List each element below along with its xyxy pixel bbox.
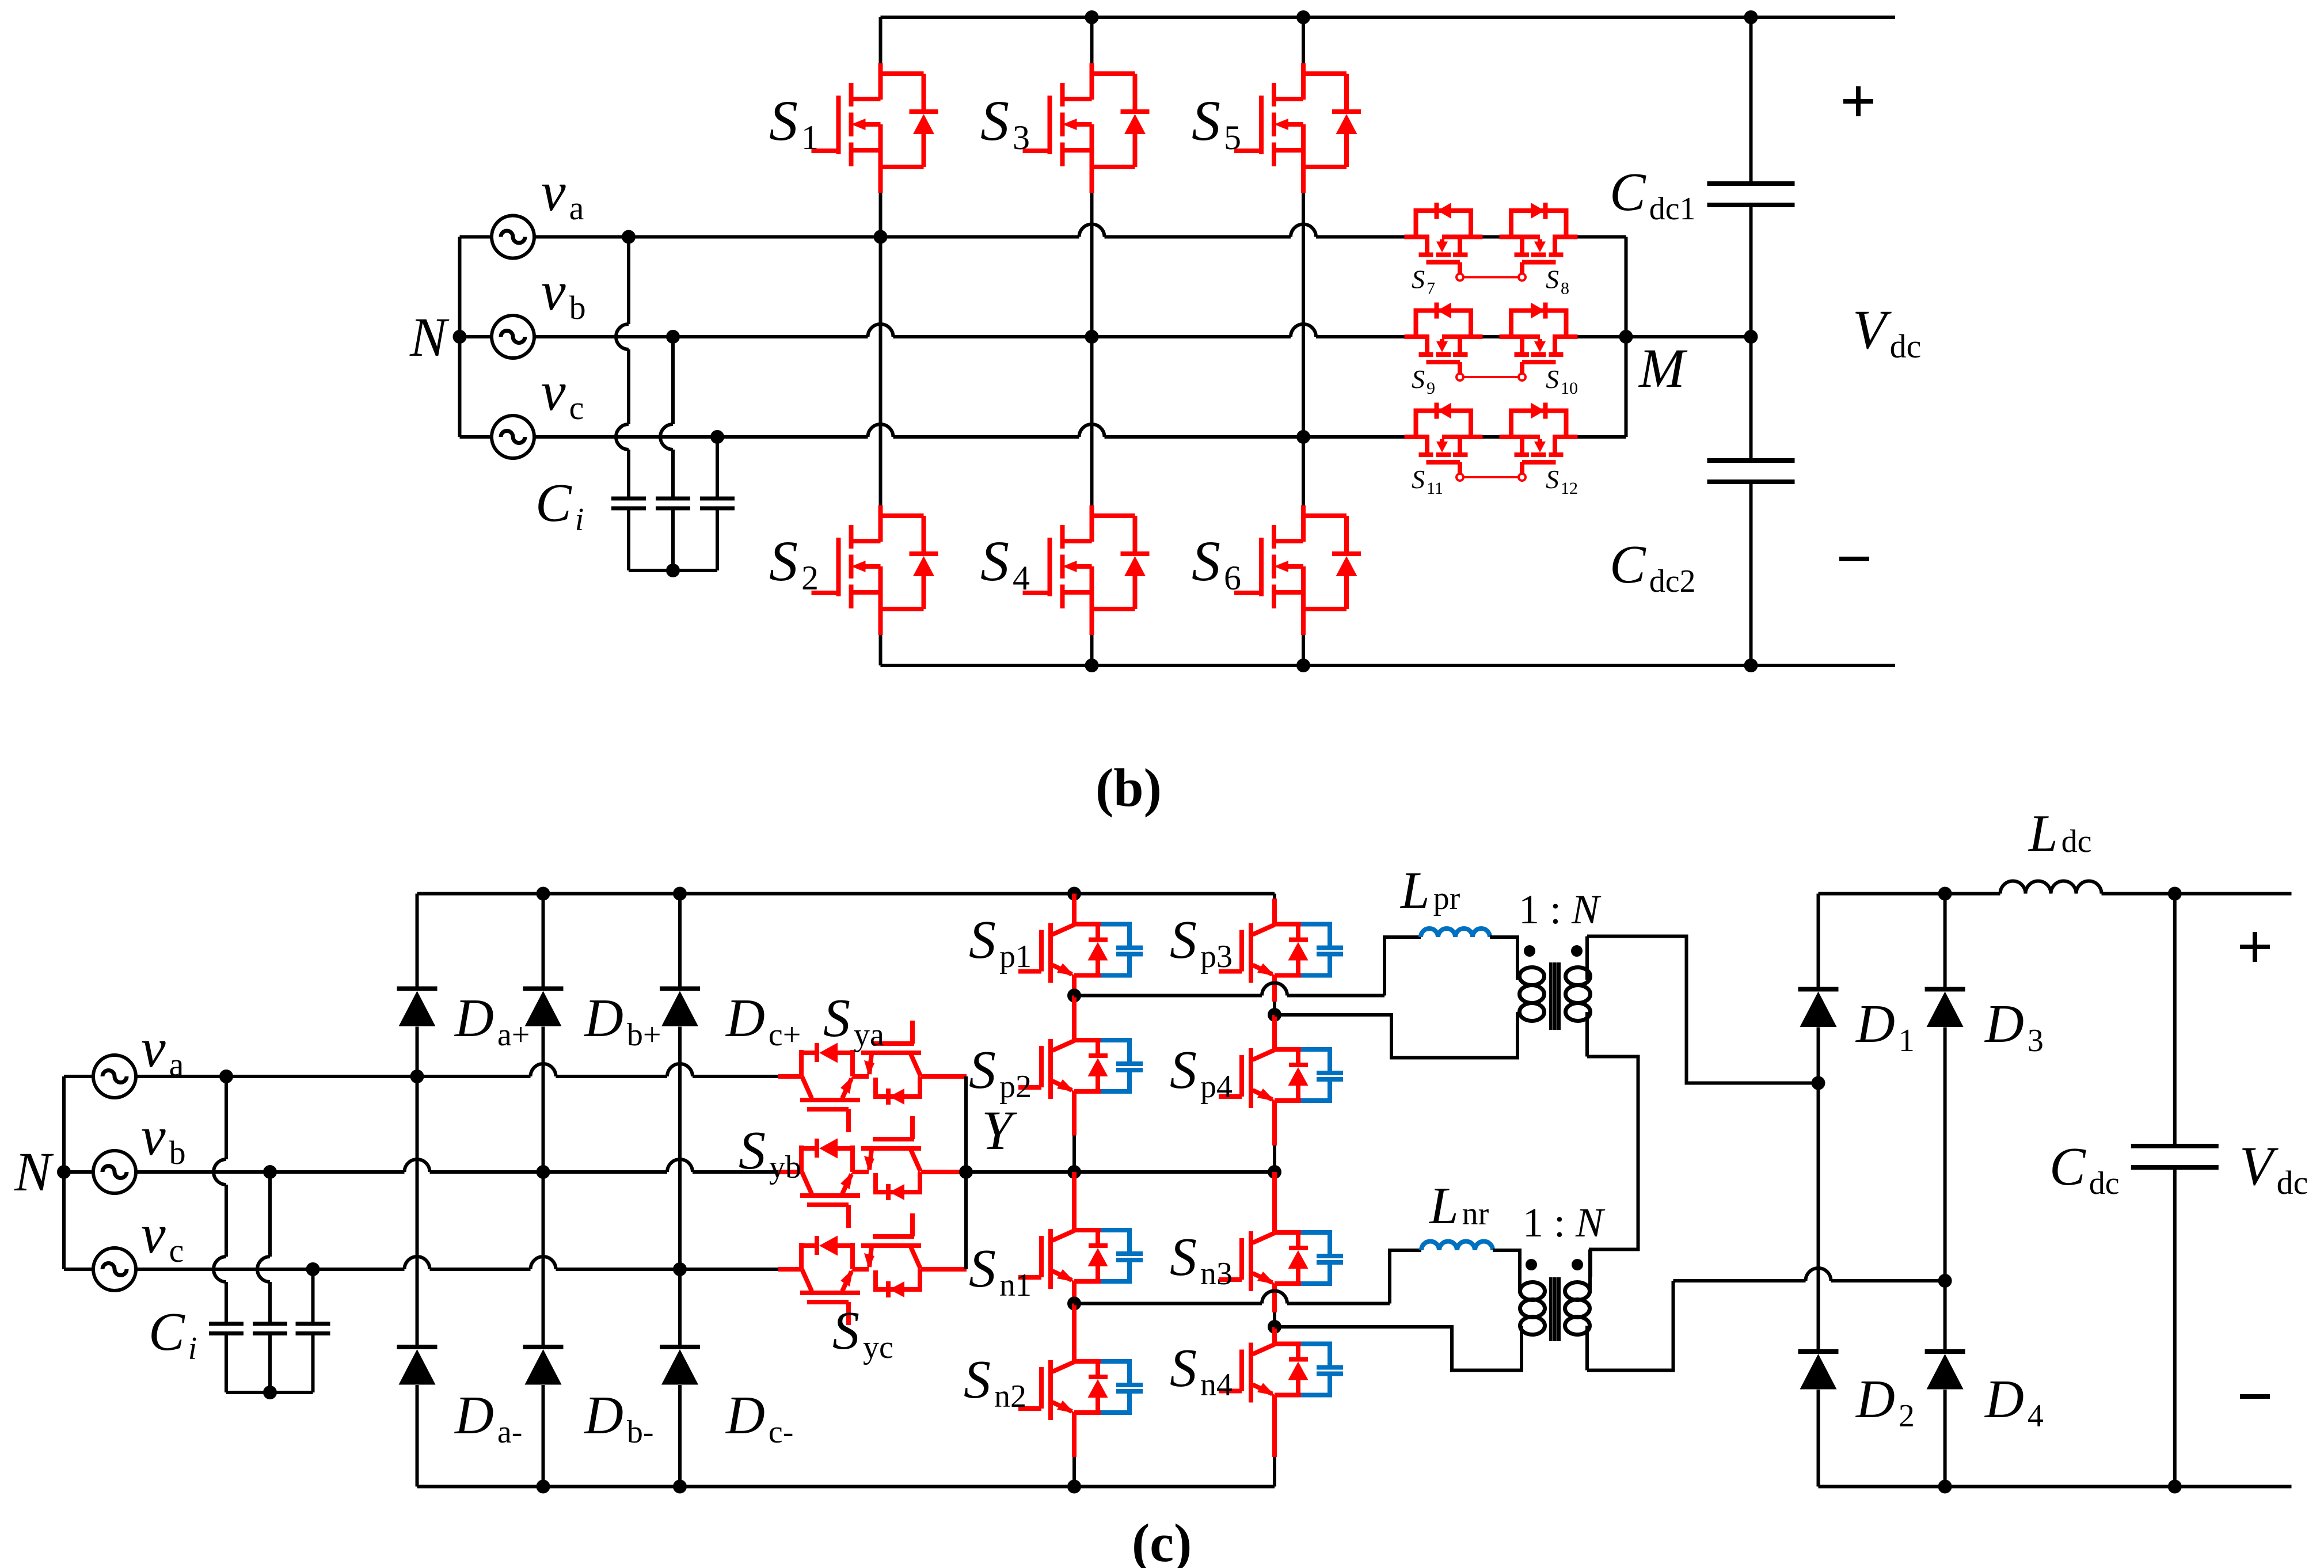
capacitor Cdc2 [1707, 460, 1795, 482]
node: leg3 bottom junction [1296, 659, 1310, 672]
node: phase b / Ci tap (c) [263, 1165, 277, 1179]
svg-text:Ci: Ci [535, 473, 584, 538]
snubber capacitor Sp3 [1301, 924, 1343, 976]
crossover: Ci-a over phase c (c) [214, 1257, 226, 1282]
node: Y / Sp4-Sn3 [1268, 1165, 1281, 1179]
svg-text:Db-: Db- [583, 1386, 654, 1450]
node M [1744, 330, 1758, 344]
node: top bus / Cdc [2168, 887, 2182, 901]
bidirectional switch Syc [778, 1213, 967, 1325]
svg-text:S3: S3 [980, 89, 1030, 157]
wire: Ci common bar (c) [226, 1391, 313, 1394]
source va (b) [492, 216, 534, 258]
node: phase b / leg b [537, 1165, 550, 1179]
crossover: Ci-a over phase c [616, 424, 629, 450]
snubber capacitor Sn1 [1101, 1230, 1143, 1281]
wire: rectifier top bus [1819, 892, 2000, 896]
wire: rectifier leg 2 [1943, 894, 1947, 989]
wire: Ci branch b (c) [268, 1172, 272, 1257]
node: phase a / Ci tap (c) [219, 1070, 233, 1083]
snubber capacitor Sn2 [1101, 1361, 1143, 1413]
svg-text:1 : N: 1 : N [1523, 1200, 1606, 1246]
wire: Ci branch a (b) [627, 237, 630, 325]
crossover: phase b over leg1 [868, 324, 893, 337]
crossover: phase b over leg3 [1291, 324, 1316, 337]
diode Da+ [397, 989, 438, 1027]
svg-text:Dc+: Dc+ [725, 988, 801, 1053]
bidirectional switch Syb [778, 1116, 967, 1228]
snubber capacitor Sp2 [1101, 1040, 1143, 1091]
wire: source stub vb (b) [460, 335, 492, 338]
wire: negative dc bus (b) [881, 664, 1896, 667]
node: dc-link bottom junction [1744, 659, 1758, 672]
crossover: phase a over leg2 [1079, 224, 1105, 237]
node: rectifier input 2 [1938, 1274, 1952, 1288]
svg-text:Cdc1: Cdc1 [1610, 162, 1696, 227]
node: leg2 bottom junction [1085, 659, 1099, 672]
svg-text:S11: S11 [1412, 465, 1443, 498]
wire: Sp2 collector [1072, 996, 1077, 1041]
wire: dc-link vertical (b) [1749, 17, 1753, 184]
wire: Sp3 emitter [1272, 976, 1277, 1002]
capacitor Ci b (b) [656, 498, 690, 508]
wire: Sp4 emitter [1272, 1101, 1277, 1145]
svg-text:D2: D2 [1855, 1369, 1915, 1434]
node: leg3 top junction [1296, 10, 1310, 24]
svg-text:(c): (c) [1132, 1513, 1192, 1568]
node: top bus / Sp1 [1067, 887, 1081, 901]
label plus (b) [1843, 99, 1873, 104]
svg-text:Dc-: Dc- [725, 1386, 793, 1450]
svg-text:S9: S9 [1412, 364, 1435, 398]
wire: Lnr to transformer2 [1493, 1250, 1520, 1293]
wire: bridge leg c (c) [678, 894, 682, 989]
node: top bus / D3 [1938, 887, 1952, 901]
transistor S1 (MOSFET) [812, 63, 938, 193]
wire: Y line to bridge [966, 1170, 1275, 1174]
polarity dot T2 primary [1526, 1259, 1537, 1270]
node N (c) [57, 1165, 71, 1179]
svg-text:vb: vb [141, 1105, 186, 1171]
wire: leg2 upper (b) [1090, 17, 1094, 63]
diode Db- [523, 1347, 564, 1385]
inductor Lpr [1421, 928, 1490, 937]
node: bottom bus / Sn2 [1067, 1480, 1081, 1494]
wire: Sn3 collector [1272, 1172, 1277, 1232]
transformer T2 (1:N) [1520, 1282, 1545, 1300]
svg-text:Db+: Db+ [583, 988, 661, 1053]
svg-text:S8: S8 [1546, 265, 1569, 298]
wire: Sn1 emitter [1072, 1281, 1077, 1298]
node C: Sn1/Sn2 junction [1067, 1297, 1081, 1311]
polarity dot T2 secondary [1572, 1259, 1583, 1270]
wire: source stub vc (b) [460, 435, 492, 439]
crossover: C link over right leg [1262, 1291, 1287, 1304]
wire: source stub va (b) [460, 235, 492, 239]
svg-text:va: va [141, 1017, 184, 1083]
svg-text:Sn4: Sn4 [1170, 1338, 1233, 1403]
node: rectifier input 1 [1812, 1076, 1825, 1090]
wire: Ci branch c (b) [716, 437, 719, 498]
wire: T1 secondary top to rectifier [1587, 937, 1819, 1083]
source vc (b) [492, 416, 534, 458]
wire: Ci branch a (c) [225, 1076, 228, 1159]
wire: right leg collector Sp3 [1273, 894, 1276, 899]
svg-text:Y: Y [982, 1099, 1017, 1161]
node: phase c / leg3 [1296, 430, 1310, 444]
svg-text:S10: S10 [1546, 364, 1578, 398]
node: Ci star point (b) [666, 564, 680, 577]
wire: Ci common bar (b) [629, 569, 717, 572]
transistor S5 (MOSFET) [1234, 63, 1361, 193]
wire: Sn2 collector [1072, 1304, 1077, 1362]
svg-text:vb: vb [541, 260, 586, 326]
svg-text:N: N [409, 306, 450, 368]
svg-text:Syc: Syc [832, 1301, 893, 1365]
crossover: phase c over leg2 [1079, 424, 1105, 437]
wire: phase b line (c) [136, 1170, 405, 1174]
transistor Sn1 (IGBT) [1018, 1229, 1108, 1289]
svg-text:Cdc: Cdc [2049, 1137, 2120, 1201]
svg-text:S12: S12 [1546, 465, 1578, 498]
wire: neutral bus (c) [62, 1076, 66, 1269]
node: bottom bus / Cdc [2168, 1480, 2182, 1494]
svg-text:1 : N: 1 : N [1519, 886, 1602, 933]
wire: T2 secondary bottom to rectifier [1587, 1281, 1673, 1371]
node: phase c / leg c [673, 1262, 687, 1276]
capacitor Ci a (b) [611, 498, 646, 508]
crossover: Ci-a over phase b [616, 324, 629, 349]
wire: left leg collector Sp1 [1072, 894, 1077, 924]
wire: Sn1 collector [1072, 1172, 1077, 1230]
svg-text:S1: S1 [769, 89, 819, 157]
capacitor Cdc (c) [2131, 1146, 2219, 1167]
node: phase c / Ci tap [710, 430, 724, 444]
diode D1 [1798, 989, 1839, 1027]
wire: node D link [1275, 1326, 1522, 1371]
wire: rectifier bottom bus [1819, 1485, 2292, 1489]
bidirectional switch cell S11/S12 [1405, 403, 1578, 481]
transistor S6 (MOSFET) [1234, 505, 1361, 635]
crossover: phase a over leg c [667, 1064, 693, 1076]
wire: phase c line (c) [136, 1268, 405, 1271]
wire: phase b to M (b) [1578, 335, 1751, 338]
svg-text:D3: D3 [1984, 994, 2044, 1059]
wire: source stub va (c) [64, 1075, 93, 1078]
transformer T2 secondary [1588, 1250, 1592, 1294]
svg-text:Sya: Sya [823, 988, 884, 1053]
node: phase a / Ci tap [622, 230, 636, 244]
wire: rectifier leg 1 [1817, 894, 1820, 989]
wire: M collector vertical (b) [1625, 237, 1628, 437]
svg-text:Sn1: Sn1 [969, 1239, 1032, 1303]
diode Da- [397, 1347, 438, 1385]
wire: bridge leg b (c) [542, 894, 545, 989]
wire: positive dc bus (b) [881, 16, 1896, 19]
node: phase c / Ci tap (c) [306, 1262, 320, 1276]
crossover: phase c over leg b [531, 1257, 556, 1269]
node D: Sn3/Sn4 junction [1268, 1320, 1281, 1334]
diode Dc- [660, 1347, 700, 1385]
polarity dot T1 primary [1524, 945, 1535, 957]
source vb (c) [93, 1151, 136, 1193]
crossover: Ci-b over phase c [660, 424, 673, 450]
svg-text:va: va [541, 161, 584, 227]
transistor S2 (MOSFET) [812, 505, 938, 635]
node: phase b / leg2 [1085, 330, 1099, 344]
svg-text:vc: vc [541, 360, 584, 427]
node: phase a / leg1 [874, 230, 888, 244]
node: bottom bus / leg c [673, 1480, 687, 1494]
node Y [959, 1165, 973, 1179]
svg-text:vc: vc [141, 1203, 184, 1269]
wire: Y vertical [964, 1076, 968, 1269]
transistor Sp2 (IGBT) [1018, 1039, 1108, 1099]
svg-text:Sn3: Sn3 [1170, 1227, 1233, 1292]
svg-text:Ci: Ci [149, 1302, 197, 1367]
label minus (b) [1839, 557, 1869, 561]
node: leg2 top junction [1085, 10, 1099, 24]
wire: bottom bus (c) [417, 1485, 1275, 1489]
wire: phase c line (b) [534, 435, 868, 439]
transistor Sn2 (IGBT) [1018, 1360, 1108, 1420]
wire: Sp2 emitter [1072, 1091, 1077, 1136]
capacitor Cdc1 [1707, 184, 1795, 205]
wire: Ci branch c (c) [311, 1269, 315, 1324]
crossover: phase a over leg b [531, 1064, 556, 1076]
svg-text:Da+: Da+ [454, 988, 530, 1053]
wire: leg1 upper (b) [879, 17, 883, 63]
svg-text:Sn2: Sn2 [964, 1350, 1026, 1414]
transistor Sp3 (IGBT) [1219, 923, 1309, 983]
svg-text:S7: S7 [1412, 265, 1435, 298]
svg-text:Sp1: Sp1 [969, 910, 1032, 975]
wire: source stub vc (c) [64, 1268, 93, 1271]
svg-text:Cdc2: Cdc2 [1610, 535, 1696, 599]
wire: phase a line (c) [136, 1075, 531, 1078]
snubber capacitor Sp1 [1101, 924, 1143, 976]
crossover: phase c over leg a [405, 1257, 430, 1269]
wire: leg3 upper (b) [1302, 17, 1305, 63]
wire: node A link [1074, 994, 1262, 998]
svg-text:S2: S2 [769, 529, 819, 597]
crossover: phase a over leg3 [1291, 224, 1316, 237]
source vc (c) [93, 1248, 136, 1291]
node B: Sp3/Sp4 junction [1268, 1008, 1281, 1022]
node: bottom bus / leg b [537, 1480, 550, 1494]
diode D3 [1925, 989, 1965, 1027]
node: top bus / leg c [673, 887, 687, 901]
crossover: phase c over leg1 [868, 424, 893, 437]
label plus (c) [2240, 945, 2270, 949]
capacitor Ci b (c) [253, 1324, 287, 1334]
transistor Sn4 (IGBT) [1219, 1343, 1309, 1403]
node: dc-link top junction [1744, 10, 1758, 24]
snubber capacitor Sn3 [1301, 1232, 1343, 1284]
polarity dot T1 secondary [1571, 945, 1583, 957]
crossover: Ci-b over phase c (c) [257, 1257, 270, 1282]
source vb (b) [492, 315, 534, 358]
node A: Sp1/Sp2 junction [1067, 989, 1081, 1003]
wire: top bus (c) [417, 892, 1275, 896]
capacitor Ci a (c) [209, 1324, 244, 1334]
svg-text:Sp3: Sp3 [1170, 910, 1233, 975]
inductor Ldc [2000, 881, 2102, 894]
wire: node C link [1074, 1302, 1262, 1306]
transistor Sp4 (IGBT) [1219, 1048, 1309, 1108]
bidirectional switch cell S9/S10 [1405, 303, 1578, 381]
crossover: phase b over leg c [667, 1159, 693, 1172]
svg-text:N: N [14, 1141, 54, 1202]
svg-text:D1: D1 [1855, 994, 1915, 1059]
svg-text:Vdc: Vdc [1853, 299, 1921, 365]
svg-text:Lnr: Lnr [1428, 1177, 1489, 1235]
wire: phase a line (b) [534, 235, 1079, 239]
bidirectional switch Sya [778, 1021, 967, 1132]
wire: phase a to M collector (b) [1578, 235, 1626, 239]
svg-text:Vdc: Vdc [2239, 1135, 2308, 1201]
svg-text:Lpr: Lpr [1399, 861, 1460, 919]
wire: phase b line (b) [534, 335, 868, 338]
diode D2 [1798, 1352, 1839, 1390]
wire: bridge leg a (c) [416, 894, 419, 989]
svg-text:Sp4: Sp4 [1170, 1040, 1233, 1105]
svg-text:Da-: Da- [454, 1386, 522, 1450]
wire: phase c to M collector (b) [1578, 435, 1626, 439]
svg-text:S6: S6 [1192, 529, 1241, 597]
diode Db+ [523, 989, 564, 1027]
inductor Lnr [1421, 1242, 1493, 1251]
snubber capacitor Sp4 [1301, 1049, 1343, 1101]
crossover: Ci-a over phase b (c) [214, 1159, 226, 1185]
capacitor Ci c (b) [700, 498, 735, 508]
wire: Sp1 emitter [1072, 976, 1077, 992]
snubber capacitor Sn4 [1301, 1344, 1343, 1395]
svg-text:M: M [1638, 337, 1688, 399]
node: Y / Sp2-Sn1 [1067, 1165, 1081, 1179]
wire: Sn4 emitter [1272, 1395, 1277, 1457]
node: M collector junction [1619, 330, 1633, 344]
svg-text:(b): (b) [1096, 758, 1162, 818]
crossover: phase b over leg a [405, 1159, 430, 1172]
svg-text:S4: S4 [980, 529, 1030, 597]
transistor S3 (MOSFET) [1023, 63, 1150, 193]
transistor S4 (MOSFET) [1023, 505, 1150, 635]
node N (b) [453, 330, 467, 344]
capacitor Ci c (c) [296, 1324, 330, 1334]
wire: source stub vb (c) [64, 1170, 93, 1174]
wire: Sn4 collector [1272, 1327, 1277, 1344]
crossover: input2 over rectifier leg1 [1806, 1268, 1831, 1281]
wire: Lpr to transformer1 [1490, 937, 1517, 980]
svg-text:S5: S5 [1192, 89, 1241, 157]
svg-text:Sp2: Sp2 [969, 1040, 1032, 1105]
transformer T1 secondary [1585, 937, 1589, 980]
transformer T1 (1:N) [1520, 968, 1545, 985]
bidirectional switch cell S7/S8 [1405, 203, 1578, 281]
wire: node B link [1275, 1012, 1517, 1058]
crossover: A link over right leg [1262, 983, 1287, 996]
node: phase a / leg a [410, 1070, 424, 1083]
node: phase b / Ci tap [666, 330, 680, 344]
label minus (c) [2240, 1394, 2270, 1399]
svg-text:Ldc: Ldc [2028, 804, 2091, 862]
wire: neutral bus (b) [458, 237, 462, 437]
wire: Sn2 emitter [1072, 1413, 1077, 1457]
node: top bus / leg b [537, 887, 550, 901]
source va (c) [93, 1055, 136, 1098]
wire: Ci branch b (b) [671, 337, 675, 424]
node: Ci star point (c) [263, 1386, 277, 1399]
wire: T1 secondary bottom to T2 secondary top [1587, 1057, 1638, 1277]
svg-text:D4: D4 [1984, 1369, 2044, 1434]
wire: Sp4 collector [1272, 1015, 1277, 1049]
diode D4 [1925, 1352, 1965, 1390]
transistor Sn3 (IGBT) [1219, 1231, 1309, 1291]
diode Dc+ [660, 989, 700, 1027]
wire: Cdc vertical [2173, 894, 2177, 1147]
node: bottom bus / D4 [1938, 1480, 1952, 1494]
svg-text:Syb: Syb [739, 1121, 801, 1185]
transistor Sp1 (IGBT) [1018, 923, 1108, 983]
wire: Sn3 emitter [1272, 1284, 1277, 1312]
